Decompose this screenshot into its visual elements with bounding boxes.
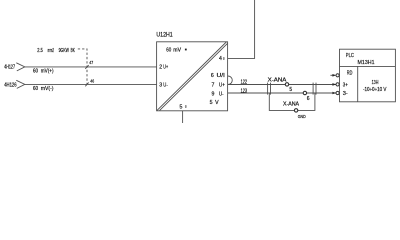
- svg-text:-10÷0÷10 V: -10÷0÷10 V: [363, 87, 387, 93]
- svg-text:9GKW: 9GKW: [59, 48, 70, 54]
- cable tick on wire 46: [85, 83, 88, 87]
- source arrow 4H127: [16, 63, 25, 71]
- source arrow 4H126: [16, 80, 25, 88]
- svg-text:3: 3: [159, 83, 162, 89]
- PLC pin RD arrow+circle: [332, 74, 339, 77]
- svg-text:U12H1: U12H1: [156, 32, 173, 39]
- svg-text:4: 4: [219, 56, 222, 62]
- svg-text:7: 7: [212, 82, 215, 88]
- svg-text:2.5: 2.5: [37, 48, 43, 54]
- svg-text:mV(-): mV(-): [41, 86, 54, 92]
- pin 5 stub below box: [182, 111, 184, 123]
- svg-text:c: c: [223, 56, 225, 60]
- wire 123: [228, 92, 337, 94]
- svg-text:X-ANA: X-ANA: [283, 102, 300, 108]
- svg-text:GND: GND: [298, 114, 306, 120]
- svg-text:123: 123: [241, 88, 248, 94]
- wire 60 mV(+): [25, 66, 157, 68]
- svg-text:5: 5: [289, 87, 292, 93]
- PLC pin 3- arrow+circle: [332, 91, 339, 94]
- svg-text:U/I: U/I: [217, 73, 225, 79]
- svg-text:mm2: mm2: [48, 48, 54, 54]
- svg-text:13H: 13H: [372, 80, 379, 86]
- PLC divider horizontal: [340, 65, 396, 67]
- wire 122: [228, 84, 337, 86]
- pin circle 6: [303, 91, 306, 94]
- svg-text:60: 60: [166, 47, 171, 53]
- cable pointer dashed line: [78, 49, 87, 85]
- shield GND wire: [269, 93, 315, 110]
- svg-text:U-: U-: [219, 91, 224, 97]
- svg-text:mV(+): mV(+): [41, 68, 54, 74]
- svg-text:9: 9: [212, 91, 215, 97]
- svg-text:46: 46: [90, 78, 94, 83]
- connector X-ANA left bracket: [267, 83, 269, 95]
- svg-text:mV: mV: [173, 47, 181, 53]
- svg-text:3+: 3+: [343, 83, 348, 89]
- pin circle 5: [285, 83, 288, 86]
- svg-text:2: 2: [159, 65, 162, 71]
- svg-text:RD: RD: [347, 70, 353, 76]
- isolation diagonal 1: [157, 42, 226, 110]
- jumper pin6-pin7: [228, 76, 233, 85]
- 60 mV square dot: [185, 49, 187, 51]
- connector X-ANA right bracket: [312, 83, 314, 95]
- svg-text:5: 5: [210, 100, 213, 106]
- PLC pin RD stub: [330, 74, 334, 76]
- svg-text:PLC: PLC: [346, 53, 354, 59]
- svg-text:U+: U+: [219, 82, 225, 88]
- svg-text:122: 122: [241, 79, 248, 85]
- PLC box M13H1: [340, 49, 396, 102]
- svg-text:47: 47: [89, 60, 93, 65]
- PLC pin 3+ arrow+circle: [332, 83, 339, 86]
- cable tick on wire 47: [85, 65, 88, 69]
- svg-text:60: 60: [33, 68, 38, 74]
- svg-text:3-: 3-: [343, 91, 348, 97]
- transducer U12H1 box: [157, 42, 228, 111]
- svg-text:4H127: 4H127: [4, 64, 15, 70]
- svg-text:V: V: [215, 100, 219, 106]
- svg-text:6: 6: [211, 73, 214, 79]
- svg-text:U-: U-: [163, 83, 168, 89]
- svg-text:U+: U+: [163, 65, 168, 71]
- svg-text:6: 6: [307, 96, 310, 102]
- pin 4 wire to top: [228, 0, 255, 58]
- svg-text:4H126: 4H126: [4, 83, 17, 89]
- svg-text:M13H1: M13H1: [358, 60, 375, 66]
- isolation diagonal 2: [160, 43, 228, 110]
- svg-text:c: c: [185, 105, 187, 109]
- wire 60 mV(-): [25, 83, 157, 85]
- pin circle GND: [294, 109, 297, 112]
- PLC divider vertical: [357, 66, 359, 101]
- svg-text:BK: BK: [71, 48, 76, 54]
- svg-text:60: 60: [33, 86, 38, 92]
- svg-text:X-ANA: X-ANA: [268, 78, 287, 84]
- svg-text:5: 5: [180, 105, 183, 111]
